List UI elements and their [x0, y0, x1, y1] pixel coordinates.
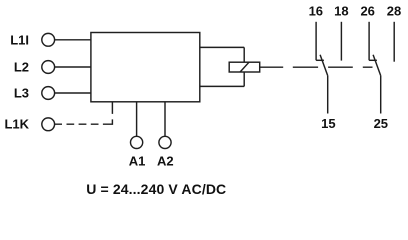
wire A1 — [136, 102, 138, 137]
terminal A2 — [159, 136, 171, 148]
wire L1K dashed — [55, 102, 113, 125]
svg-text:U = 24...240 V AC/DC: U = 24...240 V AC/DC — [86, 181, 226, 197]
wire relay branch right vertical — [243, 47, 245, 86]
wire A2 — [164, 102, 166, 137]
contact 16 seat — [316, 59, 324, 61]
svg-text:26: 26 — [360, 3, 374, 18]
svg-text:15: 15 — [321, 116, 335, 131]
wire L1I — [55, 39, 91, 41]
contact 28 terminal line — [393, 22, 395, 62]
contact lever 15-16 — [320, 55, 328, 76]
terminal L2 — [42, 61, 55, 74]
svg-text:28: 28 — [387, 3, 401, 18]
terminal A1 — [131, 136, 143, 148]
wire L3 — [55, 92, 91, 94]
svg-text:L2: L2 — [14, 60, 29, 75]
wire relay branch bottom — [200, 85, 244, 87]
contact 26 seat — [369, 59, 377, 61]
contact 26 terminal line — [368, 22, 370, 61]
contact 18 terminal line — [340, 22, 342, 61]
terminal L1K — [42, 118, 55, 131]
contact 25 common line — [380, 76, 382, 114]
wire relay branch top — [200, 46, 244, 48]
svg-text:L1I: L1I — [10, 32, 29, 47]
svg-text:18: 18 — [334, 3, 348, 18]
terminal L1I — [42, 33, 55, 46]
svg-text:L1K: L1K — [4, 116, 29, 131]
wire L2 — [55, 66, 91, 68]
wire coil lead — [260, 66, 284, 68]
svg-text:A2: A2 — [157, 154, 174, 169]
relay coil K1 slash — [240, 62, 249, 72]
device body U1 — [91, 33, 200, 102]
relay coil K1 — [229, 62, 260, 72]
svg-text:L3: L3 — [14, 86, 29, 101]
svg-text:A1: A1 — [129, 154, 146, 169]
contact 15 common line — [327, 76, 329, 114]
contact lever 25-26 — [373, 55, 381, 76]
mechanical linkage dashed — [293, 66, 373, 68]
contact 16 terminal line — [315, 22, 317, 61]
svg-text:25: 25 — [374, 116, 388, 131]
svg-text:16: 16 — [309, 3, 323, 18]
terminal L3 — [42, 87, 55, 100]
